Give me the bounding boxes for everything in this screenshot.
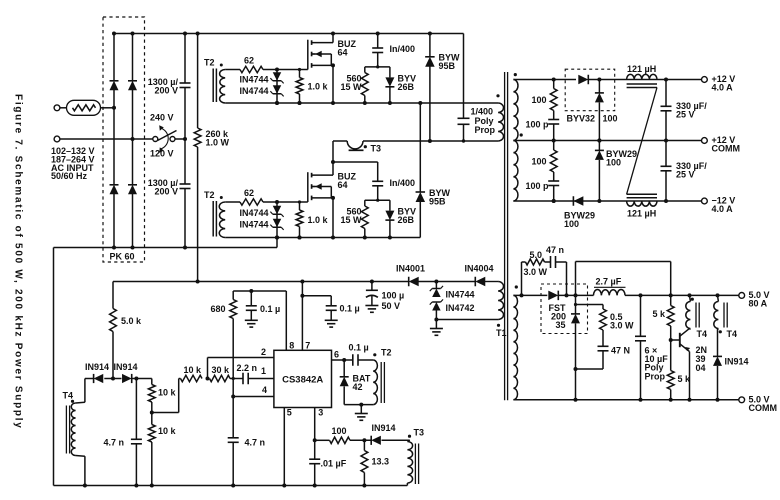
node r4 560 (363, 236, 367, 240)
svg-text:3.0 W: 3.0 W (524, 267, 548, 277)
node 10k mid (150, 411, 154, 415)
wire fst2 lower (575, 369, 577, 400)
transformer T1 core (505, 72, 508, 400)
polarity dot T2 (220, 64, 223, 67)
svg-text:10 k: 10 k (158, 426, 177, 436)
node fst2 top (574, 293, 578, 297)
node cap midpoint switch (183, 137, 187, 141)
transformer T4 #1 winding (686, 295, 691, 329)
capacitor C1 1300u (180, 83, 191, 88)
text 100 #2 (531, 157, 546, 167)
node bridge bot2 (131, 246, 135, 250)
svg-text:0.1 µ: 0.1 µ (349, 343, 369, 353)
transformer T4 #2 core (724, 303, 727, 328)
diode BYV32 (578, 75, 588, 85)
text 100u 50V (382, 291, 405, 312)
text pin5 (287, 407, 292, 417)
wire switch to caps (175, 138, 185, 140)
wire 5V top (513, 294, 738, 296)
text T2 #3 (381, 348, 392, 358)
wire zener chain (276, 70, 278, 104)
node c5 cap (639, 398, 643, 402)
svg-text:1.0 k: 1.0 k (308, 81, 329, 91)
wire pin2 riser (208, 358, 274, 379)
diode IN914 right (122, 374, 132, 383)
wire railB left corner (112, 282, 114, 309)
resistor R 260k (194, 128, 201, 147)
resistor 10k upper (148, 379, 155, 413)
capacitor 100p #2 (548, 181, 559, 186)
zener Z2 IN4744 (270, 85, 283, 96)
wire zener chain (276, 202, 278, 238)
wire -12 bottom (513, 200, 704, 202)
node bot T4 (83, 484, 87, 488)
diode BYW95B #2 (416, 192, 426, 202)
transformer T4 #3 winding (71, 379, 85, 486)
dashed box BYV32 (565, 69, 615, 111)
snubber loop 5.0/47n (522, 256, 567, 295)
wire zener to aux (436, 311, 498, 320)
node pin3 junction (313, 438, 317, 442)
transformer T1 12V secondary upper (513, 80, 518, 141)
svg-text:95B: 95B (439, 61, 456, 71)
node pin6 (342, 358, 346, 362)
text IN4744 pair (239, 208, 268, 229)
node T4-2 top (716, 293, 720, 297)
node 100p2 bottom (552, 199, 556, 203)
svg-text:IN914: IN914 (85, 362, 109, 372)
wire filter cap line (184, 34, 186, 248)
diode bridge D2 (128, 81, 137, 90)
svg-text:26B: 26B (398, 82, 415, 92)
node polyprop bottom (462, 139, 465, 142)
svg-text:26B: 26B (398, 215, 415, 225)
text 100 #1 (531, 95, 546, 105)
text BYV32 (567, 114, 596, 124)
node pin4 node (231, 395, 235, 399)
polarity dot T3 (364, 145, 367, 148)
text BYW 95B #2 (429, 188, 451, 206)
svg-text:4: 4 (262, 385, 267, 395)
wire cap to pin1 (248, 378, 274, 380)
wire base (671, 339, 680, 341)
capacitor In/400 #1 (372, 48, 383, 53)
text 100 cs (332, 426, 347, 436)
capacitor In/400 #2 (372, 181, 383, 186)
text BYW29 lower (564, 211, 595, 229)
svg-text:5.0 k: 5.0 k (121, 316, 142, 326)
diode bridge D4 (128, 185, 137, 194)
svg-text:8: 8 (289, 340, 294, 350)
diode BYW29 lower (573, 196, 583, 206)
text 3.0W (524, 267, 548, 277)
text 121uH top (627, 64, 656, 74)
text In/400 #2 (390, 178, 416, 188)
wire pin8 route (233, 291, 286, 350)
terminal +12V (702, 77, 708, 83)
svg-text:COMM: COMM (749, 403, 778, 413)
resistor 62 (240, 66, 263, 72)
text AC input rating (51, 146, 95, 181)
svg-text:100 µ: 100 µ (382, 291, 405, 301)
transformer T4 #3 core (66, 406, 69, 454)
node vref 0.1u (249, 289, 253, 293)
svg-text:CS3842A: CS3842A (282, 375, 323, 386)
svg-text:0.1 µ: 0.1 µ (260, 304, 280, 314)
text 1.0k (308, 215, 329, 225)
svg-text:T2: T2 (204, 190, 215, 200)
resistor 1.0k (296, 70, 303, 104)
node fuse-bridge (112, 106, 116, 110)
node c5 q1 (688, 398, 692, 402)
node bridge column2 AC (131, 137, 135, 141)
polarity dot T4-3 (71, 400, 74, 403)
wire 30k to cap (230, 378, 243, 380)
text 10k horiz (184, 365, 203, 375)
ground T2 drive (355, 414, 368, 421)
wire cs row (315, 439, 410, 441)
transformer T2 winding (220, 70, 226, 104)
transistor Q1 2N3904 (680, 328, 690, 351)
diode BYV32 branch (595, 80, 604, 141)
svg-text:42: 42 (353, 382, 363, 392)
svg-text:80 A: 80 A (749, 298, 768, 308)
text BUZ 64 (338, 39, 357, 57)
transformer T3 #2 core (415, 444, 418, 485)
node fb junction (206, 377, 210, 381)
node t2 gnd (359, 403, 363, 407)
resistor 62 (240, 199, 263, 205)
svg-text:100 p: 100 p (525, 120, 549, 130)
text T2 (204, 190, 215, 200)
transformer T2 core (213, 201, 216, 237)
wire In400-2 top (333, 162, 378, 181)
resistor 100 #1 (550, 80, 557, 120)
capacitor 100p #1 (548, 120, 559, 125)
node bot 100 (552, 199, 556, 203)
caption text (rotated) (13, 94, 24, 430)
node mid cap (664, 139, 668, 143)
node zener top (275, 68, 279, 72)
wire MOSFET2 drain to T3 node (332, 162, 334, 175)
node cap line bottom (183, 246, 187, 250)
node MOSFET source (331, 196, 335, 200)
svg-text:120 V: 120 V (150, 149, 174, 159)
fuse F1 (67, 100, 101, 115)
wire rail B (113, 281, 498, 283)
resistor 13.3 (361, 440, 368, 485)
bypass loop wire (576, 262, 671, 296)
node 1.0k bottom (298, 236, 302, 240)
svg-text:5 k: 5 k (653, 309, 667, 319)
node 100p1 bottom (552, 139, 556, 143)
text BYW29 upper (606, 149, 637, 167)
node fst2 0.5 branch (574, 303, 577, 306)
node bot pin5 (282, 484, 286, 488)
wire top DC rail (114, 33, 464, 35)
node In400-1 rail (376, 32, 380, 36)
ground 100u (365, 306, 378, 313)
text pin2 (261, 347, 266, 357)
text 4.7n timing (245, 438, 266, 448)
node zener bottom (275, 101, 279, 105)
svg-text:200 V: 200 V (154, 186, 178, 196)
node pin7 cap branch (300, 294, 304, 298)
node r2 zener (275, 101, 279, 105)
node bridge bot1 (112, 246, 116, 250)
text 4.7n left (104, 438, 125, 448)
wire rail3 right (430, 140, 498, 142)
node byv32 junction (597, 78, 601, 82)
resistor 1.0k (296, 202, 303, 238)
svg-text:100: 100 (531, 157, 546, 167)
text 5k upper (653, 309, 667, 319)
svg-text:IN4744: IN4744 (239, 208, 268, 218)
svg-text:T4: T4 (697, 329, 708, 339)
text 10k upper (158, 388, 177, 398)
svg-text:T2: T2 (381, 348, 392, 358)
wire 100p2 bottom (553, 186, 555, 202)
diode BYW29 upper (595, 141, 604, 202)
wire pin4 (233, 396, 274, 398)
svg-text:47 N: 47 N (611, 346, 630, 356)
wire (101, 107, 115, 109)
polarity dot T1 aux (497, 324, 500, 327)
polarity dot T2-3 (373, 353, 376, 356)
polarity dot 12V sec top (514, 73, 517, 76)
capacitor 0.1u vref (246, 291, 257, 320)
text BUZ 64 (338, 172, 357, 190)
node bot 10k (150, 484, 154, 488)
svg-text:100: 100 (332, 426, 347, 436)
text 330uF #1 (676, 101, 707, 119)
node MOSFET source (331, 63, 335, 67)
wire polyprop line (463, 34, 465, 142)
text pin7 (305, 340, 310, 350)
node 260k to railB (196, 280, 200, 284)
text 0.5 3.0W (610, 312, 634, 330)
text 0.1u vcc (340, 304, 360, 314)
svg-text:IN4001: IN4001 (396, 264, 425, 274)
node fst2 47N (574, 367, 578, 371)
text 10k lower (158, 426, 177, 436)
text 560 15W #2 (340, 207, 362, 225)
wire In400-1 top (377, 34, 379, 49)
svg-text:T1: T1 (496, 328, 507, 338)
svg-text:IN914: IN914 (372, 423, 396, 433)
node in914 right (134, 377, 138, 381)
node bot 47n (134, 484, 138, 488)
text CS3842A (282, 375, 323, 386)
text IN914 IN914 (85, 362, 138, 372)
inductor L2 121uH (627, 201, 657, 206)
svg-text:13.3: 13.3 (372, 457, 390, 467)
svg-text:IN4744: IN4744 (446, 290, 475, 300)
svg-text:IN4744: IN4744 (239, 86, 268, 96)
text pin8 (289, 340, 294, 350)
wire bridge column1 (113, 34, 115, 248)
core bars L2 (627, 194, 657, 198)
text 100p #2 (525, 181, 549, 191)
svg-text:1.0 W: 1.0 W (206, 137, 230, 147)
inductor 2.7uF (594, 289, 626, 295)
svg-text:Prop: Prop (475, 125, 496, 135)
capacitor 100u 50V (366, 282, 378, 306)
resistor 560 15W #1 (361, 67, 368, 103)
svg-text:62: 62 (244, 56, 254, 66)
resistor 10k lower (148, 413, 155, 486)
svg-text:5: 5 (287, 407, 292, 417)
terminal 5.0V COMM (739, 397, 745, 403)
text T2 (204, 58, 215, 68)
wire t2 gnd stem (360, 405, 362, 414)
wire BYW95B-2 (419, 103, 421, 238)
dashed box PK 60 (103, 17, 145, 262)
text 2.7uF (594, 277, 626, 288)
text pin3 (318, 407, 323, 417)
text 47n (546, 245, 564, 255)
svg-text:50 V: 50 V (382, 301, 401, 311)
svg-text:1.0 k: 1.0 k (308, 215, 329, 225)
text T4 #3 (63, 391, 74, 401)
node in914 mid (111, 377, 115, 381)
node zener top (275, 200, 279, 204)
text 330uF #2 (676, 161, 707, 179)
capacitor 0.1u vcc (302, 296, 336, 321)
wire bridge column2 (132, 34, 134, 248)
text IN914 cs (372, 423, 396, 433)
node bot 680line (231, 484, 235, 488)
wire 5V common rail (513, 399, 738, 401)
node r2 560 (363, 101, 367, 105)
wire rail2 (225, 102, 498, 104)
terminal AC line input (fuse side) (54, 105, 60, 111)
zener IN4744 ctrl (430, 282, 443, 311)
transformer T4 #2 winding (714, 295, 719, 329)
node MOSFET1 drain rail (331, 32, 335, 36)
svg-text:64: 64 (338, 48, 348, 58)
text 100p #1 (525, 120, 549, 130)
node cap line top (183, 32, 187, 36)
text .01uF (321, 459, 347, 469)
node snubber left (520, 293, 524, 297)
transformer T1 aux winding (498, 282, 503, 320)
node T3 node (331, 160, 335, 164)
text +12V COMM (712, 135, 741, 153)
wire T2 top (225, 69, 308, 71)
svg-text:IN914: IN914 (725, 357, 749, 367)
svg-text:6: 6 (334, 350, 339, 360)
text pin1 (261, 366, 266, 376)
svg-text:47 n: 47 n (546, 245, 564, 255)
resistor 10k horiz (179, 375, 202, 381)
svg-text:Figure 7. Schematic of 500 W,: Figure 7. Schematic of 500 W, 200 kHz Po… (13, 94, 24, 430)
node r2 1k (298, 101, 302, 105)
terminal -12V (702, 198, 708, 204)
transformer T4 #1 core (696, 303, 699, 328)
text FST 200 35 (549, 303, 567, 330)
text 62 (244, 188, 254, 198)
wire diode row (85, 378, 152, 380)
text T3 #2 (414, 428, 425, 438)
svg-text:Prop: Prop (645, 371, 666, 381)
svg-text:50/60 Hz: 50/60 Hz (51, 171, 88, 181)
text BYV 26B #2 (398, 207, 417, 225)
text 121uH bottom (627, 209, 656, 219)
wire bottom rail (54, 485, 408, 487)
text +12V (712, 74, 736, 92)
terminal AC neutral input (54, 136, 60, 142)
node c5 5k (669, 398, 673, 402)
transformer T1 5V secondary (513, 295, 517, 399)
node bridge top1 (112, 32, 116, 36)
polarity dot T4-2 (719, 330, 722, 333)
text pin4 (262, 385, 267, 395)
node r2 byv (388, 101, 392, 105)
resistor 100 #2 (550, 141, 557, 182)
diode bridge D1 (110, 81, 119, 90)
svg-text:680: 680 (211, 304, 226, 314)
svg-text:15 W: 15 W (340, 82, 362, 92)
resistor 5k lower (667, 340, 674, 400)
svg-text:200 V: 200 V (154, 85, 178, 95)
node 1.0k top (298, 200, 301, 203)
text BYV 26B #1 (398, 74, 417, 92)
svg-text:04: 04 (696, 363, 706, 373)
text 2.2n (237, 363, 258, 373)
node snubber right (565, 293, 569, 297)
transformer T3 secondary bar (349, 149, 364, 151)
diode FST #1 (548, 291, 558, 301)
node r2 mosfet (331, 101, 335, 105)
text 5.0k (121, 316, 142, 326)
switch SW1 240/120 (153, 125, 177, 153)
text T4 #1 (697, 329, 708, 339)
text 240 V (150, 113, 174, 123)
node 680 fb cross (232, 377, 235, 380)
svg-text:7: 7 (305, 340, 310, 350)
polarity dot T1 primary (496, 94, 499, 97)
capacitor 330uF #1 (661, 80, 672, 141)
resistor 680 (230, 291, 237, 319)
node +12 cap (664, 78, 668, 82)
text PK 60 (110, 252, 135, 262)
node r4 1k (298, 236, 302, 240)
svg-text:PK 60: PK 60 (110, 252, 135, 262)
text 120 V (150, 149, 174, 159)
wire pin5 (283, 408, 285, 486)
wire In400-2 bottom (365, 186, 390, 200)
text 2N3904 (696, 345, 708, 373)
polarity dot T3-2 (408, 435, 411, 438)
capacitor 2.2n (243, 373, 248, 385)
node In400-1 junction (376, 65, 379, 68)
wire zener gnd stem (435, 320, 437, 329)
node c5 fst2 (574, 398, 578, 402)
wire T2 top (225, 201, 308, 203)
wire (60, 138, 155, 140)
transformer T1 12V secondary lower (513, 141, 518, 202)
svg-text:T3: T3 (414, 428, 425, 438)
node railB zeners (434, 280, 438, 284)
zener Z1 IN4744 (270, 206, 283, 217)
transistor BUZ64 MOSFET (308, 172, 333, 202)
capacitor 4.7n timing (228, 438, 239, 486)
text C2 value (148, 178, 179, 196)
diode FST #2 (571, 295, 580, 369)
wire BYW95B-1 (429, 34, 431, 142)
wire mid rail (513, 140, 704, 142)
